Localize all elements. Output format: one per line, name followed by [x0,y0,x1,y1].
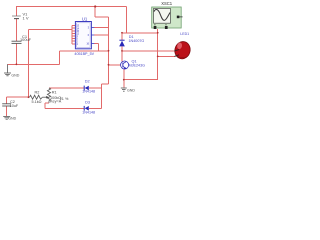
wire pin stub 6 [72,38,76,40]
svg-text:U1: U1 [82,16,88,21]
LED1 legs [175,50,180,57]
wire rail tap horizontal [95,16,108,18]
svg-text:R2: R2 [35,91,40,95]
wire under-IC horizontal [59,50,108,52]
wire emitter row [124,79,158,81]
ground GND3 [121,88,127,91]
wire pin stub 3 [72,30,76,32]
wire D1 cathode riser [121,33,123,40]
oscilloscope XSC1 [152,7,183,29]
wire V1 top riser [16,7,18,16]
capacitor C1 [12,41,22,43]
svg-text:1 V: 1 V [23,16,29,21]
svg-text:5.1kΩ: 5.1kΩ [32,100,42,104]
wire C2 row [7,96,29,98]
wire IC pin bus [71,26,73,44]
wire D3 row left [45,107,84,109]
wire D1 top row [122,32,158,34]
ground GND2 [3,116,10,119]
wire pin stub 7 [72,40,76,42]
wire scope A drop [157,29,159,80]
wire pot bottom jog [45,102,49,104]
wire C1 bottom [16,44,18,65]
wire IC left feed vertical [28,30,30,98]
svg-text:10uF: 10uF [10,104,19,108]
ground GND1 [4,64,11,76]
wire top rail [16,6,127,8]
wire horizontal mid-left rail [8,63,60,65]
battery V1 [12,16,21,19]
wire pot top to D2 [49,87,84,89]
wire D3 row right [89,107,102,109]
Q1 emitter arrow [124,67,127,69]
svg-text:21 %: 21 % [60,97,69,101]
wire IC right pin stub A [94,27,108,29]
diode D3 [84,106,89,111]
svg-text:MJE243G: MJE243G [129,64,146,68]
svg-text:1N4148: 1N4148 [82,110,95,114]
wire IC right pin stub B [94,34,108,36]
svg-text:D2: D2 [85,79,90,83]
IC U1 pin numbers [76,24,89,46]
resistor R2 [30,95,43,99]
diode D1 [119,40,125,46]
svg-text:GND: GND [8,116,16,120]
capacitor C2 [2,104,11,106]
wire D1 anode to Q1 collector [121,47,123,62]
wire Q1 base [109,64,121,66]
svg-text:1N4148: 1N4148 [82,90,95,94]
wire pot bottom drop vertical [44,103,46,108]
wire V1 to C1 [16,19,18,41]
svg-text:GND: GND [11,74,19,78]
transistor Q1 [121,61,129,69]
diode D2 [84,86,89,91]
junction dots [16,5,159,98]
wire pin stub 2 [72,27,76,29]
wire IC pin16 drop [98,44,100,51]
LED1 body [173,40,192,61]
wire D2 row right [89,87,102,89]
wire rail tap drop [94,7,96,18]
IC U1 right pins [91,28,94,44]
wire step to D2 column [102,83,109,85]
pot wiper arrow [46,96,49,99]
wire C2 to ground [6,106,8,116]
wire pin stub 1 [72,25,76,27]
wire big right vertical [108,17,110,84]
potentiometer R1 [42,88,50,103]
wire Q1 emitter drop [123,69,125,88]
wire pin stub 5 [72,35,76,37]
IC U1 body [75,22,91,49]
wire rail right drop [126,7,128,33]
svg-text:GND: GND [127,88,135,92]
wire D3 to D2 riser [101,84,103,109]
svg-text:100uF: 100uF [20,37,32,42]
wire pin stub 4 [72,32,76,34]
svg-text:LED1: LED1 [180,32,189,36]
svg-text:1N4007G: 1N4007G [129,39,145,43]
wire IC left feed horizontal [29,29,72,31]
svg-text:R1: R1 [52,91,57,95]
svg-text:4051BP_5V: 4051BP_5V [74,52,94,56]
wire mid-rail riser [58,51,60,65]
svg-text:D3: D3 [85,101,90,105]
svg-text:XSC1: XSC1 [161,1,173,6]
wire IC pin16 stub [94,43,98,45]
wire LED anode row [122,50,175,52]
wire pin stub 8 [72,43,76,45]
wire C2 riser [6,97,8,103]
wire LED cathode row [158,55,175,57]
